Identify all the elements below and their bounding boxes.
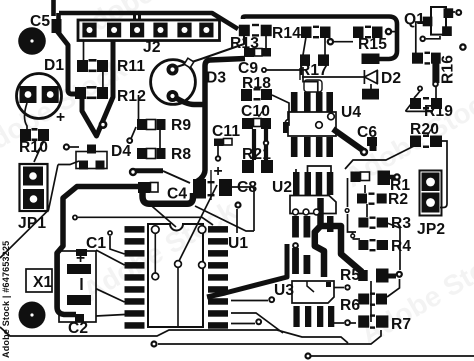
svg-text:R16: R16 [440,55,457,84]
svg-text:J2: J2 [143,39,161,56]
svg-text:R8: R8 [171,146,191,163]
svg-text:Adobe Stock | #647653225: Adobe Stock | #647653225 [1,241,11,358]
svg-text:R3: R3 [391,215,411,232]
svg-text:R11: R11 [117,58,145,75]
svg-text:D1: D1 [44,57,64,74]
svg-text:R13: R13 [230,35,259,52]
svg-text:D4: D4 [111,143,131,160]
svg-text:R6: R6 [340,297,360,314]
svg-text:R17: R17 [299,62,328,79]
svg-text:C6: C6 [357,124,377,141]
svg-text:U4: U4 [341,104,361,121]
svg-text:R7: R7 [391,316,411,333]
svg-text:R9: R9 [171,117,191,134]
svg-text:U1: U1 [228,235,248,252]
svg-text:Q1: Q1 [404,11,425,28]
svg-text:+: + [76,250,85,267]
svg-text:D2: D2 [381,70,401,87]
svg-text:+: + [56,109,65,126]
svg-text:C11: C11 [212,123,240,140]
svg-text:X1: X1 [33,274,53,291]
svg-text:C5: C5 [30,13,50,30]
svg-text:R19: R19 [424,103,453,120]
svg-text:+: + [214,163,223,180]
svg-text:R2: R2 [388,191,408,208]
svg-text:C8: C8 [237,179,257,196]
svg-text:C2: C2 [68,320,88,337]
svg-text:JP1: JP1 [18,215,46,232]
svg-text:U2: U2 [272,179,292,196]
svg-text:R15: R15 [358,36,387,53]
svg-text:R21: R21 [242,146,271,163]
svg-text:R18: R18 [242,75,271,92]
svg-text:D3: D3 [206,70,226,87]
svg-text:R4: R4 [391,238,411,255]
svg-text:R12: R12 [117,88,146,105]
svg-text:U3: U3 [274,282,294,299]
svg-text:C1: C1 [86,235,106,252]
svg-text:JP2: JP2 [417,221,445,238]
svg-text:R5: R5 [340,267,360,284]
svg-text:R14: R14 [272,25,301,42]
svg-text:C4: C4 [167,186,187,203]
